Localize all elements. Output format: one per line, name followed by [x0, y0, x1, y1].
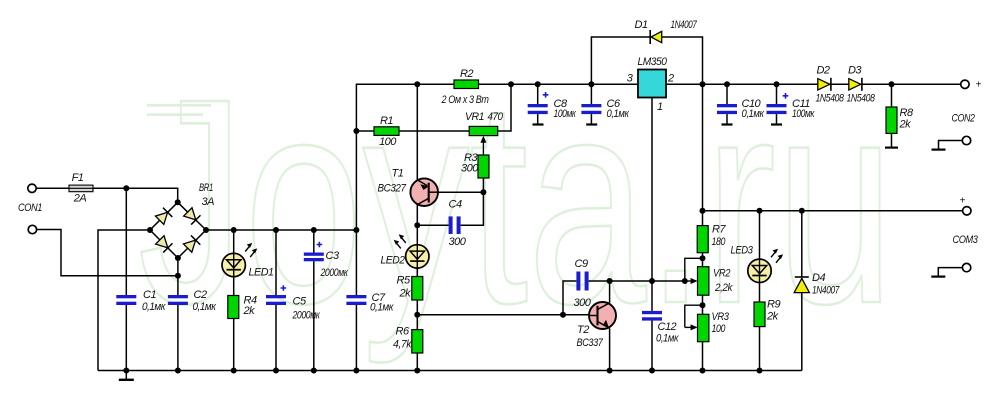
capacitor C1 [116, 295, 136, 305]
svg-text:D4: D4 [812, 272, 825, 284]
wire R1 to VR1 [399, 130, 469, 132]
transistor T2 BC337 [589, 302, 616, 329]
diode D3 [849, 78, 862, 91]
wire out rail [703, 210, 963, 212]
wire C1 branch lower [125, 305, 127, 371]
capacitor C6 [581, 104, 601, 114]
junction C5 top [273, 227, 279, 233]
svg-text:100: 100 [712, 323, 727, 335]
svg-text:2k: 2k [899, 119, 912, 131]
wire R2 line right [479, 83, 639, 85]
wire R5 to junction [416, 300, 418, 330]
wire pin2 to out rail [702, 84, 704, 211]
potentiometer VR3 [698, 314, 709, 341]
wire C5 branch lower [275, 305, 277, 371]
wire C12 upper [651, 281, 653, 311]
wire LED2 to R5 [416, 268, 418, 277]
svg-text:R2: R2 [460, 68, 473, 80]
terminal COM3 plus [963, 207, 971, 215]
svg-text:2 Ом х 3 Вт: 2 Ом х 3 Вт [441, 94, 489, 106]
junction C3 top [311, 227, 317, 233]
capacitor C2 [168, 295, 188, 305]
junction R3 C4 [480, 189, 486, 195]
wire pin1 drop [651, 98, 653, 282]
terminal COM3 minus [962, 263, 970, 271]
wire T1 emitter drop [416, 84, 418, 180]
junction ADJ T2 collector [607, 278, 613, 284]
potentiometer VR1 [469, 126, 498, 135]
junction C7 bus [353, 368, 359, 374]
wire R1 feed [356, 130, 374, 132]
junction C2 bus [175, 368, 181, 374]
svg-text:2,2k: 2,2k [714, 282, 733, 294]
resistor R9 [754, 302, 765, 327]
junction R4 bus [231, 368, 237, 374]
svg-text:CON2: CON2 [952, 113, 975, 125]
wire T2 emitter drop [609, 328, 611, 370]
resistor R4 [228, 296, 239, 319]
wiper arrow VR1 [480, 136, 486, 155]
svg-text:0,1мк: 0,1мк [656, 333, 679, 345]
junction C12 bus [649, 368, 655, 374]
wire R2 line left [417, 83, 454, 85]
wire bottom bus [98, 370, 802, 372]
capacitor C8 [528, 104, 548, 114]
junction C4 left [414, 222, 420, 228]
resistor R3 [478, 155, 489, 178]
wire C11 lower [776, 114, 778, 124]
junction C10 top [724, 81, 730, 87]
capacitor C4 [449, 216, 461, 234]
junction out rail LED3 [757, 208, 763, 214]
svg-text:BR1: BR1 [199, 182, 213, 194]
resistor R7 [697, 226, 708, 253]
diode D4 [794, 277, 809, 293]
resistor R2 [454, 80, 479, 89]
wiper arrow VR3 [685, 305, 703, 330]
diode D1 [650, 30, 662, 44]
wire VR2 VR3 link [702, 295, 704, 314]
resistor R6 [412, 330, 423, 353]
svg-text:T2: T2 [577, 324, 589, 336]
junction C1 bus [123, 368, 129, 374]
junction R1 tap [353, 128, 359, 134]
svg-text:300: 300 [461, 163, 479, 175]
wire C7 upper seg [355, 230, 357, 295]
terminator CON2 stub [932, 149, 946, 151]
terminal CON1 pin1 [28, 184, 36, 192]
plus C11 [783, 93, 789, 99]
terminal CON1 pin2 [28, 225, 36, 233]
svg-text:1N5408: 1N5408 [847, 93, 876, 105]
junction ADJ wiper [682, 278, 688, 284]
LED LED2 [394, 234, 429, 268]
svg-text:2000мк: 2000мк [320, 267, 349, 279]
capacitor C7 [346, 295, 366, 305]
svg-text:+: + [960, 196, 966, 207]
svg-text:0,1мк: 0,1мк [193, 301, 217, 313]
svg-text:R1: R1 [380, 115, 393, 127]
wire C12 lower [651, 321, 653, 371]
diode D2 [818, 78, 831, 91]
wire R8 lower [891, 133, 893, 147]
wire C4 right leg [461, 192, 484, 225]
wire T2 base line [417, 314, 589, 316]
junction VR1 riser [508, 81, 514, 87]
wire R7 VR2 link [702, 253, 704, 267]
wire VR1 right riser [498, 84, 511, 131]
svg-text:F1: F1 [72, 172, 84, 184]
svg-text:R8: R8 [900, 107, 914, 119]
svg-text:C4: C4 [449, 199, 462, 211]
junction bus end at C7 line [353, 227, 359, 233]
svg-text:0,1мк: 0,1мк [607, 108, 630, 120]
junction R7 VR2 [700, 255, 706, 261]
junction ADJ pin1 [649, 278, 655, 284]
svg-text:COM3: COM3 [953, 234, 979, 246]
svg-text:D1: D1 [635, 19, 648, 31]
svg-text:C3: C3 [326, 250, 340, 262]
plus C5 [281, 285, 287, 291]
svg-text:2k: 2k [243, 305, 256, 317]
svg-text:R7: R7 [712, 223, 726, 235]
svg-text:0,1мк: 0,1мк [742, 108, 765, 120]
svg-text:LED1: LED1 [249, 267, 274, 279]
junction R8 top [889, 81, 895, 87]
svg-text:1N4007: 1N4007 [812, 285, 840, 297]
svg-text:R5: R5 [397, 275, 411, 287]
svg-text:R6: R6 [396, 326, 410, 338]
junction out rail R7 [700, 208, 706, 214]
svg-text:C9: C9 [575, 258, 588, 270]
svg-text:2k: 2k [766, 311, 779, 323]
svg-text:1N4007: 1N4007 [671, 19, 698, 31]
svg-text:LED3: LED3 [731, 245, 754, 257]
svg-text:BC337: BC337 [577, 337, 604, 349]
wire C8 upper [537, 84, 539, 104]
transistor T1 BC327 [410, 178, 438, 206]
junction R9 bus [757, 368, 763, 374]
capacitor C10 [717, 104, 737, 114]
resistor R8 [886, 107, 897, 133]
svg-text:LED2: LED2 [381, 255, 405, 267]
junction R6 bus [414, 368, 420, 374]
wire R3 bottom leg [482, 178, 484, 192]
bridge rectifier BR1 [150, 202, 206, 258]
wire C7 branch lower [355, 305, 357, 371]
svg-text:C1: C1 [143, 289, 156, 301]
junction C3 bus [311, 368, 317, 374]
wire C9 left leg [563, 281, 576, 315]
capacitor C11 [767, 104, 787, 114]
wire CON2 minus stub [939, 141, 963, 150]
junction C5 bus [273, 368, 279, 374]
junction C8 top [535, 81, 541, 87]
svg-text:C12: C12 [658, 321, 677, 333]
wire C1 branch upper [125, 188, 127, 295]
svg-text:LM350: LM350 [638, 56, 668, 68]
wire pin2 rail [666, 83, 961, 85]
wire C6 lower [590, 114, 592, 124]
terminator R8 [885, 147, 898, 149]
wire C4 left leg [417, 224, 448, 226]
wiper arrow VR2 [685, 258, 703, 284]
wire T1 base [438, 191, 484, 193]
capacitor C12 [642, 311, 662, 321]
wire T2 collector riser [609, 281, 611, 303]
wire D1 left leg [591, 37, 650, 84]
junction C9 left tap [560, 312, 566, 318]
terminator C10 [722, 123, 733, 125]
svg-text:100мк: 100мк [792, 108, 815, 120]
junction R5 R6 T2 base [414, 312, 420, 318]
svg-text:2000мк: 2000мк [292, 310, 321, 322]
wire CON1-1 to fuse [36, 187, 69, 189]
svg-text:C2: C2 [194, 289, 207, 301]
LED LED3 [748, 249, 783, 283]
svg-text:300: 300 [449, 236, 467, 248]
wire C6 upper [590, 84, 592, 104]
terminator C6 [586, 123, 597, 125]
wire R8 upper [891, 84, 893, 107]
junction out rail D4 [799, 208, 805, 214]
resistor R1 [374, 127, 399, 136]
capacitor C9 [576, 272, 588, 291]
svg-text:C5: C5 [293, 296, 307, 308]
wire LED1 branch [233, 230, 235, 253]
wire LED3 to R9 [759, 282, 761, 302]
ground [119, 371, 134, 380]
wire bridge bottom to C2 [177, 261, 179, 296]
junction bridge right [203, 227, 209, 233]
wire raw DC riser x356 [356, 84, 417, 230]
svg-text:CON1: CON1 [18, 202, 42, 214]
junction T1 emitter tap [414, 81, 420, 87]
wire CON1-2 run [37, 230, 178, 276]
wire LED3 top leg [759, 211, 761, 259]
svg-text:2A: 2A [73, 193, 87, 205]
svg-text:BC327: BC327 [378, 183, 407, 195]
svg-text:100мк: 100мк [554, 108, 577, 120]
svg-text:1N5408: 1N5408 [816, 93, 845, 105]
wire COM3 minus stub [938, 268, 962, 277]
wire C3 branch upper [313, 230, 315, 253]
junction C11 top [774, 81, 780, 87]
junction VR3 bus [700, 368, 706, 374]
junction pin2 D1 [700, 81, 706, 87]
regulator U1 LM350 [638, 70, 666, 98]
svg-text:4,7k: 4,7k [393, 339, 412, 351]
svg-text:D3: D3 [848, 65, 862, 77]
svg-text:470: 470 [488, 111, 504, 123]
LED LED1 [222, 243, 257, 277]
junction bridge top [175, 199, 181, 205]
junction C1 top [123, 185, 129, 191]
wire C5 branch upper [275, 230, 277, 295]
wire VR3 to bus [702, 342, 704, 371]
wire C8 lower [537, 114, 539, 124]
wire bridge left to ground leg [98, 230, 148, 371]
junction bridge bottom wire [175, 273, 181, 279]
wire D4 lower [801, 293, 803, 371]
terminator COM3 stub [931, 276, 945, 278]
svg-text:T1: T1 [392, 168, 404, 180]
capacitor C3 [304, 253, 324, 262]
wire R4 to bus [233, 318, 235, 370]
svg-text:2: 2 [667, 73, 674, 85]
terminal CON2 plus [961, 80, 969, 88]
junction VR2 VR3 [700, 302, 706, 308]
svg-text:0,1мк: 0,1мк [142, 301, 166, 313]
svg-text:0,1мк: 0,1мк [370, 302, 394, 314]
junction bridge left [147, 227, 153, 233]
svg-text:VR2: VR2 [713, 267, 730, 279]
wire D1 right leg [662, 37, 703, 84]
resistor R5 [412, 277, 423, 301]
wire T1 collector drop [416, 204, 418, 245]
wire R6 to bus [416, 353, 418, 371]
svg-text:VR1: VR1 [465, 111, 484, 123]
svg-text:2k: 2k [399, 288, 412, 300]
wire C2 lower [177, 305, 179, 371]
svg-text:VR3: VR3 [712, 311, 730, 323]
wire R9 to bus [759, 327, 761, 371]
svg-text:1: 1 [657, 101, 663, 113]
wire LED1 to R4 [233, 277, 235, 296]
terminator C11 [771, 123, 782, 125]
wire top bus raw DC [209, 229, 357, 231]
wire C11 upper [776, 84, 778, 104]
wire ADJ line [589, 280, 685, 282]
potentiometer VR2 [698, 267, 709, 296]
wire fuse to bridge top [93, 188, 178, 199]
fuse F1 [69, 185, 93, 192]
svg-text:R9: R9 [767, 299, 780, 311]
junction LED1 top [231, 227, 237, 233]
terminator C8 [533, 123, 544, 125]
junction C6 D1 top [588, 81, 594, 87]
capacitor C5 [266, 295, 286, 305]
svg-text:180: 180 [712, 236, 727, 248]
junction bridge bottom [175, 255, 181, 261]
wire D4 upper [801, 211, 803, 277]
terminal CON2 minus [962, 136, 970, 144]
svg-text:D2: D2 [816, 65, 829, 77]
svg-text:100: 100 [379, 136, 397, 148]
wire C10 lower [726, 114, 728, 124]
junction T2 emitter bus [607, 368, 613, 374]
wire C10 upper [726, 84, 728, 104]
wire C3 branch lower [313, 261, 315, 370]
wire R7 top leg [702, 211, 704, 226]
svg-text:300: 300 [574, 297, 592, 309]
plus C3 [317, 242, 323, 248]
svg-text:3A: 3A [202, 196, 215, 208]
svg-text:+: + [976, 80, 982, 91]
plus C8 [543, 92, 549, 98]
